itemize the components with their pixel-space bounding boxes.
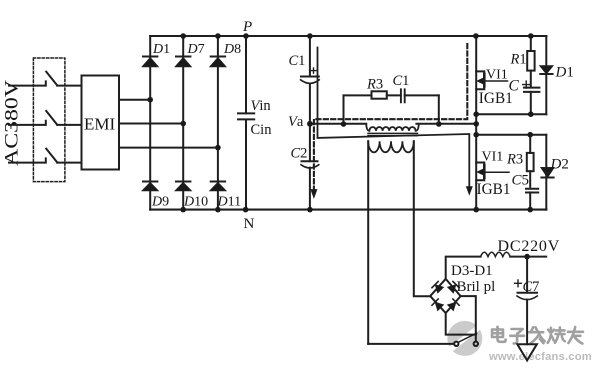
capacitor C1 plates (301, 76, 319, 78)
resistor R3 bottom cell (529, 135, 531, 187)
svg-text:D2: D2 (550, 157, 569, 173)
svg-text:R3: R3 (506, 152, 523, 168)
diode D10 (175, 182, 191, 191)
diode D1 (142, 57, 158, 67)
snubber right lead (438, 95, 440, 124)
wire Va line right (416, 123, 476, 125)
bridge right path (461, 296, 476, 335)
diode D2 (541, 168, 554, 178)
wire to switch (475, 335, 477, 342)
svg-text:Vin: Vin (251, 98, 272, 114)
secondary left lead (367, 141, 369, 344)
capacitor Cin plates (238, 113, 254, 119)
wire Va line left (310, 123, 366, 125)
bridge bottom path (446, 313, 476, 335)
capacitor C7 branch (526, 257, 528, 345)
P rail (150, 35, 546, 37)
svg-text:Cin: Cin (251, 122, 273, 138)
N rail (150, 209, 546, 211)
bridge diode BL (432, 299, 444, 311)
top cell right vertical (545, 36, 547, 114)
svg-text:D7: D7 (187, 42, 205, 57)
svg-text:DC220V: DC220V (498, 238, 561, 255)
resistor R3 snubber (372, 91, 387, 98)
bottom return wire (368, 343, 454, 345)
bridge leg 1 (149, 36, 151, 210)
resistor R1 (530, 36, 532, 87)
svg-text:C1: C1 (393, 73, 410, 89)
wire EMI to leg1 (119, 99, 150, 101)
ground (517, 344, 537, 360)
phase 2 input wire (9, 121, 46, 125)
transformer secondary winding (368, 141, 414, 152)
transformer core (368, 133, 418, 135)
svg-text:D8: D8 (223, 42, 241, 57)
snubber top wire (344, 94, 372, 96)
svg-text:EMI: EMI (84, 115, 116, 134)
svg-text:D3-D1: D3-D1 (451, 263, 493, 279)
solid current loop (318, 48, 470, 187)
svg-text:D11: D11 (217, 195, 242, 210)
EMI filter block (82, 76, 120, 170)
capacitor C5 (526, 189, 538, 193)
wire EMI to leg3 (119, 147, 218, 149)
bridge diode TR (447, 281, 459, 293)
snubber left lead (343, 95, 345, 124)
svg-text:D9: D9 (151, 195, 169, 210)
plus sign C7 (515, 280, 522, 287)
capacitor C top cell (524, 88, 539, 92)
dashed current loop (314, 44, 467, 190)
phase 1 breaker blade (46, 72, 57, 86)
capacitor Cin branch wire (245, 36, 247, 210)
solid loop arrowhead (466, 187, 472, 195)
diode D1 top cell (540, 66, 553, 74)
phase 2 breaker blade (46, 111, 57, 125)
diode D8 (210, 57, 226, 67)
bridge leg 3 (217, 36, 219, 210)
watermark logo disc (447, 321, 485, 356)
svg-text:C1: C1 (289, 53, 306, 69)
diode D11 (210, 182, 226, 191)
svg-text:D1: D1 (555, 65, 574, 81)
IGBT leg vertical (475, 36, 477, 210)
bridge diode TL (432, 281, 444, 293)
svg-text:AC380V: AC380V (2, 80, 23, 166)
svg-text:R1: R1 (510, 52, 527, 68)
DC output wire up (446, 257, 481, 279)
dashed loop arrowhead (311, 190, 317, 198)
diode D9 (142, 182, 158, 191)
watermark text (492, 327, 583, 344)
phase 3 input wire (9, 158, 46, 162)
capacitor C1 snubber (401, 89, 405, 102)
output inductor (481, 252, 511, 256)
svg-text:Bril pl: Bril pl (457, 279, 496, 295)
phase 1 input wire (9, 81, 46, 85)
phase 3 wire to EMI (57, 162, 81, 164)
IGBT VI1 top symbol (476, 71, 484, 89)
switch right contact (474, 342, 478, 346)
bridge leg 2 (182, 36, 184, 210)
diode D7 (175, 57, 191, 67)
phase 3 breaker blade (46, 149, 57, 163)
svg-text:C7: C7 (523, 279, 540, 295)
wire R3 to C1 (387, 94, 401, 96)
svg-text:D1: D1 (152, 42, 170, 57)
bridge diode BR (447, 299, 459, 311)
capacitor C1 divider branch (309, 36, 311, 210)
secondary right lead (414, 141, 430, 296)
svg-text:IGB1: IGB1 (477, 181, 511, 198)
wire C1 to right lead (405, 94, 439, 96)
svg-text:P: P (242, 19, 252, 35)
svg-text:VI1: VI1 (482, 150, 504, 165)
svg-text:C2: C2 (291, 146, 308, 162)
phase 2 wire to EMI (57, 124, 81, 126)
output bridge D3-D1 diamond (430, 279, 460, 313)
transformer primary winding (366, 124, 419, 131)
top cell bottom rail (476, 113, 546, 115)
capacitor C7 plates (518, 292, 538, 294)
plus sign C1 (311, 68, 316, 73)
svg-text:N: N (244, 216, 255, 232)
svg-text:D10: D10 (183, 195, 208, 210)
svg-text:VI1: VI1 (486, 68, 508, 83)
svg-text:R3: R3 (366, 77, 383, 93)
svg-text:www.elecfans.com: www.elecfans.com (488, 351, 592, 363)
svg-text:Va: Va (288, 114, 304, 130)
IGBT VI1 bottom symbol (476, 163, 484, 181)
wire EMI to leg2 (119, 123, 183, 125)
capacitor C2 plates (302, 160, 318, 162)
svg-text:C5: C5 (512, 173, 530, 189)
svg-text:C: C (509, 78, 520, 95)
switch left contact (454, 342, 458, 346)
DC wire right (510, 256, 546, 258)
bottom cell right vertical (545, 135, 547, 210)
switch blade (458, 333, 476, 342)
dashed breaker box (33, 58, 65, 182)
bottom cell top rail (476, 134, 546, 136)
phase 1 wire to EMI (57, 85, 81, 87)
